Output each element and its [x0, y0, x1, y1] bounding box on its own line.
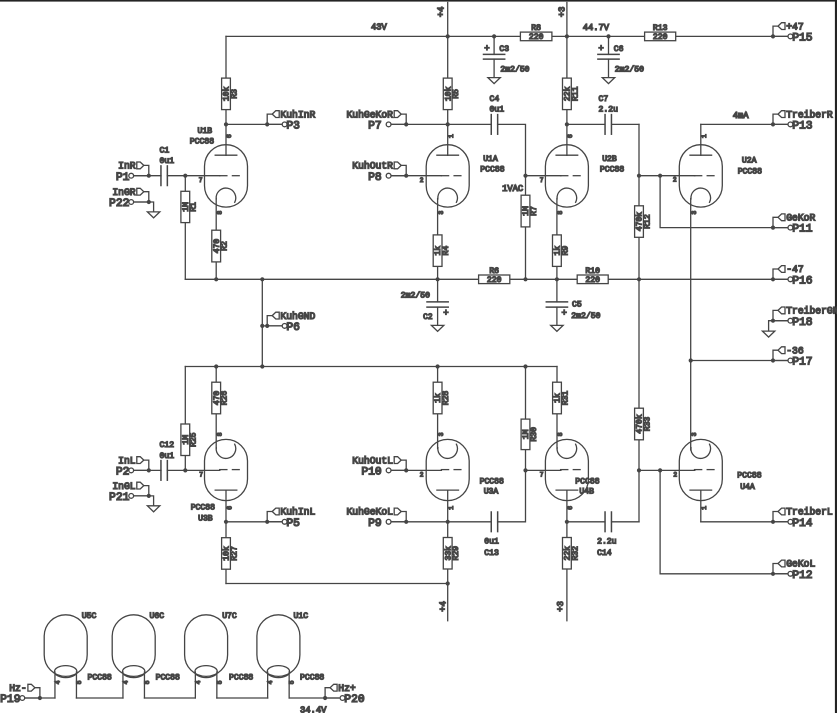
svg-text:R25: R25 — [190, 432, 199, 447]
wire InR: P1 to C1 — [133, 175, 161, 177]
junction dot P6 tap — [260, 324, 264, 328]
svg-text:8: 8 — [217, 432, 224, 436]
svg-text:InGL: InGL — [112, 481, 135, 492]
svg-text:P15: P15 — [792, 33, 813, 45]
wire C7 right to U2A grid riser — [612, 123, 639, 125]
svg-text:R26: R26 — [221, 391, 230, 406]
svg-text:U3A: U3A — [484, 488, 499, 497]
ground at P18 — [762, 331, 774, 337]
node TreiberL / pin P14 connector — [771, 507, 833, 530]
junction dots grid row 1 — [183, 174, 662, 178]
svg-text:C3: C3 — [499, 45, 509, 54]
svg-text:R8: R8 — [531, 24, 541, 33]
node InR / pin P1 connector — [116, 161, 151, 184]
wire bus U1C to P20 — [289, 697, 338, 699]
svg-text:U2B: U2B — [602, 155, 617, 164]
svg-text:R1: R1 — [190, 202, 199, 212]
svg-text:4: 4 — [267, 680, 274, 684]
resistor R6 220 — [479, 267, 510, 285]
svg-text:PCC88: PCC88 — [229, 673, 253, 682]
pin numbers U3A — [420, 432, 455, 510]
wire C5 to ground — [556, 307, 558, 325]
svg-text:U6C: U6C — [150, 612, 165, 621]
wire C6 to ground — [608, 59, 610, 78]
capacitor C7 2.2u — [599, 95, 619, 134]
label U5C — [82, 612, 112, 682]
node KuhInL / pin P5 connector — [265, 507, 315, 530]
wire U2A anode lead — [700, 124, 702, 155]
svg-text:P10: P10 — [361, 467, 382, 479]
svg-text:P1: P1 — [116, 172, 130, 184]
svg-text:TreiberR: TreiberR — [786, 109, 833, 120]
wire R30 branch — [525, 367, 527, 471]
svg-text:GeKoL: GeKoL — [786, 559, 815, 570]
svg-text:+: + — [561, 309, 566, 319]
svg-text:InR: InR — [118, 161, 136, 172]
svg-text:1: 1 — [448, 506, 455, 510]
wire U1A cathode to R4 to rail — [437, 199, 439, 280]
svg-text:5: 5 — [216, 680, 223, 684]
node KuhOutL / pin P10 connector — [352, 455, 408, 478]
ground for C2 — [431, 325, 443, 331]
svg-text:7: 7 — [540, 472, 544, 479]
svg-text:4: 4 — [54, 680, 61, 684]
svg-text:P17: P17 — [792, 357, 812, 369]
resistor R25 1M — [181, 424, 199, 456]
wire U2B anode junction to C7 — [567, 123, 605, 125]
svg-text:2.2u: 2.2u — [597, 537, 617, 546]
node -36 / pin P17 connector — [771, 345, 813, 368]
pin numbers U4B — [540, 432, 574, 510]
svg-text:U2A: U2A — [742, 157, 757, 166]
svg-text:KuhInL: KuhInL — [280, 507, 315, 518]
svg-text:R12: R12 — [643, 214, 652, 229]
svg-text:R2: R2 — [221, 241, 230, 251]
svg-text:Hz-: Hz- — [9, 683, 26, 694]
resistor R26 470 — [212, 382, 230, 414]
label U3A — [480, 477, 504, 496]
wire mid rail (R2/R4/R6/R10 row) to P16 — [185, 278, 787, 280]
svg-text:PCC88: PCC88 — [88, 673, 112, 682]
svg-text:3: 3 — [691, 432, 698, 436]
wire GeKoL riser to P12 — [660, 470, 788, 573]
svg-text:C1: C1 — [160, 146, 170, 155]
tube U4A PCC88 triode (mirrored) — [679, 439, 722, 500]
wire bus U6C-U7C — [144, 697, 195, 699]
svg-text:U3B: U3B — [198, 515, 213, 524]
svg-text:P11: P11 — [792, 224, 813, 236]
svg-text:4: 4 — [195, 680, 202, 684]
wire C3 branch — [493, 36, 495, 54]
wire R25 branch — [184, 367, 186, 471]
node Hz+ / pin P20 connector — [323, 683, 365, 706]
svg-text:2: 2 — [673, 177, 677, 184]
label U2B — [600, 155, 624, 175]
svg-text:+4: +4 — [439, 601, 449, 612]
label U4B — [575, 477, 599, 496]
svg-text:KuhGND: KuhGND — [280, 311, 315, 322]
resistor R28 1k — [433, 382, 451, 414]
svg-text:7: 7 — [199, 177, 203, 184]
svg-text:PCC88: PCC88 — [600, 166, 624, 175]
wire P21 ground stub — [149, 496, 154, 506]
wire U4B anode through R32 to +3 stub — [566, 490, 568, 620]
svg-text:KuhOutL: KuhOutL — [352, 455, 393, 466]
wire C3 to ground — [493, 59, 495, 78]
svg-text:KuhInR: KuhInR — [280, 109, 315, 120]
capacitor C5 2m2/50 polarized — [546, 301, 600, 321]
wire U2A grid lead — [639, 175, 695, 177]
ground for C5 — [551, 325, 563, 331]
svg-text:R11: R11 — [571, 86, 580, 101]
svg-text:2.2u: 2.2u — [599, 105, 619, 114]
junction dot +4 rail — [446, 581, 450, 585]
svg-text:0u1: 0u1 — [490, 105, 505, 114]
svg-text:P22: P22 — [109, 198, 129, 210]
wire +4 bottom rail — [226, 583, 448, 585]
wire R31 to U4B cathode — [556, 367, 558, 449]
pin numbers U2B — [540, 134, 574, 215]
svg-text:7: 7 — [199, 472, 203, 479]
svg-text:-47: -47 — [786, 264, 804, 275]
resistor R8 220 — [520, 24, 552, 42]
svg-text:220: 220 — [487, 276, 502, 285]
node KuhInR / pin P3 connector — [265, 109, 315, 132]
tube U3B PCC88 triode (mirrored) — [205, 439, 248, 500]
wire C2 to ground — [437, 307, 439, 325]
svg-text:34.4V: 34.4V — [300, 705, 327, 713]
svg-text:R6: R6 — [489, 267, 499, 276]
resistor R5 10k — [443, 78, 461, 110]
svg-text:C14: C14 — [597, 549, 612, 558]
svg-text:PCC88: PCC88 — [191, 504, 215, 513]
svg-text:2m2/50: 2m2/50 — [401, 291, 430, 300]
capacitor C4 0u1 — [490, 95, 505, 134]
node TreiberR / pin P13 connector — [771, 109, 833, 132]
resistor R33 470k — [635, 408, 653, 440]
node KuhOutR / pin P8 connector — [352, 161, 408, 184]
node TreiberGND / pin P18 connector — [771, 306, 837, 329]
svg-text:U4B: U4B — [579, 488, 594, 497]
svg-text:+3: +3 — [556, 601, 566, 612]
svg-text:3: 3 — [691, 211, 698, 215]
svg-text:7: 7 — [540, 177, 544, 184]
wire U2A cathode down to U4A cathode — [690, 199, 692, 451]
wire C14 right to riser — [612, 521, 639, 523]
junction dots top rail — [446, 34, 611, 38]
pin numbers U2A — [673, 134, 708, 215]
svg-text:R13: R13 — [653, 24, 668, 33]
wire C14 left — [567, 521, 605, 523]
svg-text:U4A: U4A — [740, 483, 755, 492]
resistor R32 22k — [563, 538, 581, 570]
wire C5 branch — [556, 279, 558, 302]
node Hz- / pin P19 connector — [0, 683, 42, 706]
svg-text:2m2/50: 2m2/50 — [571, 312, 600, 321]
svg-text:44.7V: 44.7V — [583, 23, 610, 33]
svg-text:R10: R10 — [585, 267, 600, 276]
resistor R13 220 — [645, 24, 676, 42]
label U4A — [737, 472, 761, 492]
resistor R7 1M — [521, 195, 539, 227]
wire 43V top rail — [226, 35, 788, 37]
svg-text:8: 8 — [557, 432, 564, 436]
svg-text:PCC88: PCC88 — [737, 472, 761, 481]
capacitor C3 2m2/50 polarized — [484, 44, 530, 74]
svg-text:U1B: U1B — [198, 127, 213, 136]
wire U5C heater leads — [54, 672, 56, 698]
svg-text:2: 2 — [673, 472, 677, 479]
capacitor C6 2m2/50 polarized — [598, 44, 644, 74]
svg-text:R5: R5 — [452, 89, 461, 99]
svg-text:PCC88: PCC88 — [480, 477, 504, 486]
node InGL / pin P21 connector — [109, 481, 151, 504]
tube U2A PCC88 triode — [679, 145, 722, 207]
svg-text:1VAC: 1VAC — [502, 184, 523, 194]
svg-text:P7: P7 — [368, 121, 382, 133]
tube U2B PCC88 triode — [545, 145, 588, 207]
ground for C3 — [488, 78, 500, 84]
resistor R27 10k — [222, 538, 240, 570]
svg-text:P9: P9 — [368, 518, 382, 530]
wire heater bus P19 to U5C — [25, 697, 55, 699]
wire lower rail (R25/R26/R28/R30 row) — [185, 366, 557, 368]
node +47 / pin P15 connector — [771, 21, 813, 44]
svg-text:3: 3 — [438, 211, 445, 215]
svg-text:2m2/50: 2m2/50 — [615, 65, 644, 74]
svg-text:5: 5 — [289, 680, 296, 684]
junction dots rail2 — [214, 364, 528, 368]
wire TreiberL: U4A anode to P14 — [701, 521, 788, 523]
wire C6 branch — [608, 36, 610, 54]
svg-text:P3: P3 — [286, 121, 300, 133]
wire P18 TreiberGND stub with ground — [769, 321, 788, 331]
svg-text:R4: R4 — [442, 246, 451, 256]
node -47 / pin P16 connector — [771, 264, 813, 287]
wire TreiberR: U2A anode to P13 — [701, 123, 788, 125]
wire C13 right to U4B grid junction riser — [498, 470, 526, 521]
wire InL: P2 to C12 — [133, 469, 161, 471]
wire U3A anode through R29 to +4 stub — [447, 490, 449, 620]
svg-text:+: + — [484, 44, 489, 54]
svg-text:R27: R27 — [230, 546, 239, 561]
svg-text:U7C: U7C — [222, 612, 237, 621]
svg-text:TreiberL: TreiberL — [786, 507, 833, 518]
resistor R30 1M — [521, 419, 539, 450]
resistor R9 1k — [553, 235, 571, 267]
svg-text:R30: R30 — [530, 427, 539, 442]
svg-text:KuhOutR: KuhOutR — [352, 161, 393, 172]
tube U3A PCC88 triode (mirrored) — [426, 439, 469, 500]
svg-text:P8: P8 — [368, 172, 382, 184]
pin numbers heaters — [54, 680, 295, 684]
svg-text:PCC88: PCC88 — [300, 673, 324, 682]
svg-text:0u1: 0u1 — [160, 452, 175, 461]
junction dots grid row 2 — [183, 468, 662, 472]
node KuhGeKoR / pin P7 connector — [346, 109, 408, 132]
capacitor C13 0u1 — [484, 512, 499, 558]
wire U4A anode lead — [700, 490, 702, 522]
svg-text:U1C: U1C — [294, 612, 309, 621]
svg-text:1: 1 — [701, 506, 708, 510]
junction dots rail1 — [214, 277, 641, 281]
svg-text:R32: R32 — [571, 546, 580, 561]
wire KuhInR: U1B anode to P3 — [226, 123, 282, 125]
svg-text:KuhGeKoR: KuhGeKoR — [346, 109, 393, 120]
wire KuhInL: U3B anode to P5 — [226, 521, 282, 523]
svg-text:+47: +47 — [786, 21, 804, 32]
svg-text:TreiberGND: TreiberGND — [786, 306, 837, 317]
wire -36 P17 tap — [691, 360, 788, 362]
label U1C — [294, 612, 325, 682]
wire KuhGND tap to P6 — [262, 325, 282, 327]
tube U7C PCC88 heater — [185, 615, 228, 678]
svg-text:R3: R3 — [230, 89, 239, 99]
wire U7C heater leads — [194, 672, 196, 698]
svg-text:P12: P12 — [792, 570, 812, 582]
wire U6C heater leads — [122, 672, 124, 698]
svg-text:1: 1 — [701, 134, 708, 138]
svg-text:P5: P5 — [286, 518, 300, 530]
svg-text:InGR: InGR — [112, 187, 135, 198]
wire KuhOutL: P10 to U3A grid — [392, 469, 442, 471]
resistor R1 1M — [181, 191, 199, 222]
svg-text:PCC88: PCC88 — [738, 168, 762, 177]
pin numbers U3B — [199, 432, 233, 510]
wire U4B grid lead — [526, 469, 561, 471]
svg-text:5: 5 — [76, 680, 83, 684]
svg-text:+3: +3 — [557, 7, 567, 18]
svg-text:43V: 43V — [371, 23, 388, 33]
svg-text:PCC88: PCC88 — [480, 165, 504, 174]
svg-text:0u1: 0u1 — [160, 157, 175, 166]
border frame right edge — [835, 0, 837, 713]
junction dot P17 tap — [689, 358, 693, 362]
label U1A — [480, 155, 504, 175]
svg-text:220: 220 — [585, 276, 600, 285]
wire U1B cathode to R2 to rail — [215, 199, 217, 280]
svg-text:P13: P13 — [792, 121, 813, 133]
wire R26 to U3B cathode — [215, 367, 217, 449]
wire InGL: P21 stub — [133, 495, 148, 497]
svg-text:+: + — [598, 44, 603, 54]
wire R7 branch down to rail — [525, 176, 527, 280]
tube U1C PCC88 heater — [257, 615, 300, 678]
wire R1 grid leak branch — [184, 176, 186, 280]
junction dots mid1 row — [224, 122, 569, 126]
node KuhGND / pin P6 connector — [265, 311, 315, 334]
svg-text:6: 6 — [226, 134, 233, 138]
svg-text:5: 5 — [144, 680, 151, 684]
wire +4 stub top — [447, 3, 449, 156]
svg-text:+4: +4 — [436, 7, 446, 18]
svg-text:U1A: U1A — [483, 155, 498, 164]
resistor R31 1k — [553, 382, 571, 414]
svg-text:P6: P6 — [286, 322, 300, 334]
wire P22 ground stub — [149, 202, 154, 212]
resistor R29 33k — [443, 538, 461, 570]
svg-text:4mA: 4mA — [733, 111, 750, 121]
capacitor C12 0u1 — [160, 441, 175, 480]
resistor R10 220 — [577, 267, 608, 285]
pin numbers U1A — [420, 134, 455, 215]
svg-text:P14: P14 — [792, 518, 813, 530]
svg-text:R29: R29 — [452, 546, 461, 561]
svg-text:P2: P2 — [116, 467, 130, 479]
svg-text:8: 8 — [217, 211, 224, 215]
svg-text:P19: P19 — [0, 694, 20, 706]
wire U2B cathode to R9 to rail — [556, 199, 558, 280]
svg-text:C4: C4 — [490, 95, 500, 104]
svg-text:C6: C6 — [614, 45, 624, 54]
ground at P21 — [147, 506, 159, 512]
svg-text:R9: R9 — [561, 246, 570, 256]
pin numbers U4A — [673, 432, 708, 510]
wire C2 branch — [437, 279, 439, 302]
wire +4 top stub / R3 anode branch U1B — [225, 36, 227, 155]
capacitor C14 2.2u — [597, 512, 617, 558]
wire bus U5C-U6C — [76, 697, 123, 699]
svg-text:P16: P16 — [792, 275, 813, 287]
wire U2B grid lead — [526, 175, 561, 177]
svg-text:InL: InL — [118, 455, 136, 466]
svg-text:+: + — [443, 309, 448, 319]
wire U1C heater leads — [267, 672, 269, 698]
svg-text:6: 6 — [567, 134, 574, 138]
wire GeKoR riser to P11 — [660, 176, 788, 228]
svg-text:PCC88: PCC88 — [575, 477, 599, 486]
wire C4 right to U2B grid junction — [498, 124, 526, 175]
tube U1B PCC88 triode — [205, 145, 248, 207]
svg-text:220: 220 — [529, 33, 544, 42]
ground for C6 — [602, 78, 614, 84]
node InGR / pin P22 connector — [109, 187, 151, 210]
svg-text:6: 6 — [567, 506, 574, 510]
tube U5C PCC88 heater — [44, 615, 87, 678]
svg-text:P18: P18 — [792, 317, 813, 329]
svg-text:U5C: U5C — [82, 612, 97, 621]
tube U4B PCC88 triode (mirrored) — [545, 439, 588, 500]
svg-text:R7: R7 — [530, 206, 539, 216]
node GeKoR / pin P11 connector — [771, 213, 816, 236]
tube U1A PCC88 triode — [426, 145, 469, 207]
svg-text:1: 1 — [448, 134, 455, 138]
svg-text:4: 4 — [122, 680, 129, 684]
node GeKoL / pin P12 connector — [771, 559, 816, 582]
svg-text:-36: -36 — [786, 345, 804, 356]
svg-text:KuhGeKoL: KuhGeKoL — [346, 507, 393, 518]
svg-text:C7: C7 — [599, 95, 609, 104]
capacitor C1 0u1 — [160, 146, 175, 185]
svg-text:220: 220 — [653, 33, 668, 42]
label U2A — [738, 157, 762, 177]
label U3B — [191, 504, 215, 524]
svg-text:2: 2 — [420, 472, 424, 479]
ground at P22 — [147, 212, 159, 218]
capacitor C2 2m2/50 polarized — [401, 291, 449, 322]
wire R12/R33 vertical riser — [638, 124, 640, 521]
tube U6C PCC88 heater — [112, 615, 155, 678]
svg-text:Hz+: Hz+ — [338, 683, 356, 694]
svg-text:C13: C13 — [484, 549, 499, 558]
junction dots mid2 row — [224, 520, 569, 524]
node InL / pin P2 connector — [116, 455, 151, 478]
label U1B — [190, 127, 214, 147]
wire U3B anode through R27 to +4 rail — [225, 490, 227, 583]
svg-text:R31: R31 — [561, 391, 570, 406]
svg-text:GeKoR: GeKoR — [786, 213, 815, 224]
svg-text:R33: R33 — [643, 417, 652, 432]
